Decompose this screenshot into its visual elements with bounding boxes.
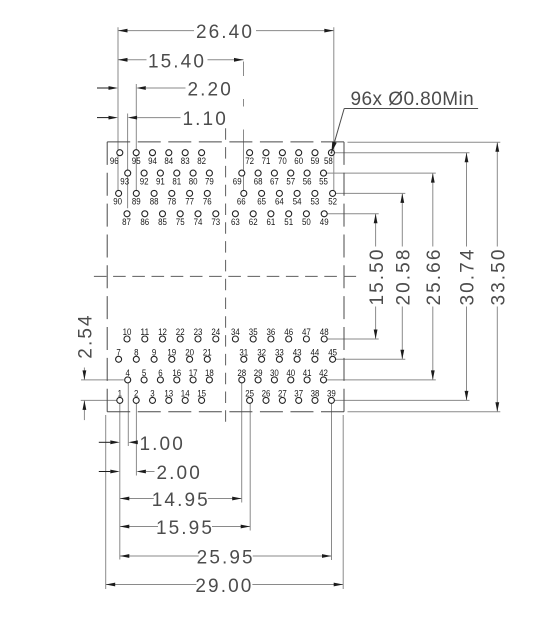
svg-text:13: 13 [164, 389, 173, 399]
dimension 1.00 [99, 441, 111, 443]
svg-text:25.95: 25.95 [197, 548, 255, 569]
pin 36 [268, 336, 274, 342]
svg-text:28: 28 [237, 368, 246, 378]
extension line pin-25 column (dim 15.95) [249, 404, 251, 531]
extension line row8 left (dim 2.54 bottom) [81, 399, 117, 401]
pin 68 [255, 170, 261, 176]
svg-text:31: 31 [239, 347, 248, 357]
pin 71 [263, 150, 269, 156]
connector body outline (dashed) bottom edge [107, 411, 344, 413]
pin 52 [330, 190, 336, 196]
pin 37 [296, 397, 302, 403]
svg-text:52: 52 [328, 197, 337, 207]
svg-text:71: 71 [262, 156, 271, 166]
pin 56 [304, 170, 310, 176]
svg-text:32: 32 [257, 347, 266, 357]
svg-text:17: 17 [189, 368, 198, 378]
svg-text:90: 90 [113, 197, 122, 207]
pin 47 [303, 336, 309, 342]
extension line row5 right (dim 15.50 bottom) [327, 338, 378, 340]
svg-text:62: 62 [249, 217, 258, 227]
pin 9 [151, 356, 157, 362]
pin 81 [174, 170, 180, 176]
pin 38 [312, 397, 318, 403]
pin 43 [294, 356, 300, 362]
svg-text:39: 39 [327, 389, 336, 399]
svg-text:95: 95 [132, 156, 141, 166]
pin 45 [330, 356, 336, 362]
svg-text:67: 67 [270, 176, 279, 186]
pin 7 [116, 356, 122, 362]
pin 80 [190, 170, 196, 176]
pin 79 [206, 170, 212, 176]
dimension 15.40 [118, 59, 147, 61]
svg-text:88: 88 [150, 197, 159, 207]
pin 10 [124, 336, 130, 342]
svg-text:47: 47 [302, 327, 311, 337]
svg-text:30: 30 [270, 368, 279, 378]
pin 39 [328, 397, 334, 403]
extension line body bottom right (dim 33.50 bottom) [348, 411, 501, 413]
pin 18 [206, 377, 212, 383]
pin 19 [169, 356, 175, 362]
extension line pin-4 column (dim 1.00) [127, 383, 129, 446]
svg-text:24: 24 [211, 327, 220, 337]
svg-text:2: 2 [134, 389, 138, 399]
svg-text:11: 11 [140, 327, 149, 337]
pin 15 [199, 397, 205, 403]
pin 59 [312, 150, 318, 156]
pin 21 [204, 356, 210, 362]
pin 62 [250, 211, 256, 217]
svg-text:49: 49 [320, 217, 329, 227]
pin 93 [125, 170, 131, 176]
svg-text:8: 8 [134, 347, 138, 357]
dimension 2.20 [97, 87, 109, 89]
svg-text:7: 7 [116, 347, 120, 357]
pin 94 [150, 150, 156, 156]
extension line body-left (dim 29.00) [105, 415, 107, 589]
svg-text:1: 1 [118, 389, 122, 399]
connector body outline (dashed) top edge [107, 141, 344, 143]
pin 88 [151, 190, 157, 196]
vertical centerline [225, 128, 227, 425]
pin 41 [304, 377, 310, 383]
svg-text:6: 6 [158, 368, 162, 378]
svg-text:5: 5 [142, 368, 146, 378]
svg-text:96: 96 [110, 156, 119, 166]
svg-text:29.00: 29.00 [195, 576, 253, 597]
svg-text:65: 65 [257, 197, 266, 207]
leader note 96x diam 0.80 Min [344, 108, 478, 110]
svg-text:2.00: 2.00 [157, 463, 202, 484]
extension line row7 right (dim 25.66 bottom) [327, 379, 436, 381]
pin 8 [133, 356, 139, 362]
svg-text:2.20: 2.20 [188, 80, 233, 101]
extension line X3 (pin-95/89 column, dim 2.20) [135, 84, 137, 190]
svg-text:14.95: 14.95 [152, 490, 210, 511]
svg-text:64: 64 [275, 197, 284, 207]
pin 58 [328, 150, 334, 156]
pin 11 [142, 336, 148, 342]
svg-text:79: 79 [205, 176, 214, 186]
pin 44 [312, 356, 318, 362]
pin 61 [268, 211, 274, 217]
pin 40 [288, 377, 294, 383]
pin 57 [288, 170, 294, 176]
pin 74 [195, 211, 201, 217]
dimension 26.40 (top) [118, 30, 194, 32]
pin 63 [232, 211, 238, 217]
horizontal centerline [94, 275, 357, 277]
pin 49 [321, 211, 327, 217]
pin 51 [286, 211, 292, 217]
svg-text:46: 46 [284, 327, 293, 337]
svg-text:57: 57 [286, 176, 295, 186]
extension line X4 (dim 15.40 right end, to pin 66) [243, 62, 245, 77]
svg-text:26: 26 [262, 389, 271, 399]
svg-text:25.66: 25.66 [424, 247, 445, 305]
pin 34 [232, 336, 238, 342]
dimension 25.95 [120, 555, 199, 557]
svg-text:68: 68 [254, 176, 263, 186]
pin 48 [321, 336, 327, 342]
svg-text:29: 29 [254, 368, 263, 378]
extension line row8 right (dim 30.74 bottom) [335, 399, 470, 401]
svg-text:96x Ø0.80Min: 96x Ø0.80Min [351, 89, 475, 110]
pin 26 [263, 397, 269, 403]
svg-text:27: 27 [278, 389, 287, 399]
svg-text:30.74: 30.74 [458, 247, 479, 305]
pin 83 [182, 150, 188, 156]
pin 46 [286, 336, 292, 342]
pin 58 leader target dot [331, 152, 333, 154]
pin 3 [150, 397, 156, 403]
pin 14 [182, 397, 188, 403]
pin 67 [271, 170, 277, 176]
dimension 33.50 (vertical) [496, 142, 498, 246]
dimension 30.74 (vertical) [466, 153, 468, 247]
dimension 29.00 [106, 584, 197, 586]
svg-text:75: 75 [176, 217, 185, 227]
svg-text:86: 86 [140, 217, 149, 227]
pin 60 [296, 150, 302, 156]
svg-text:50: 50 [302, 217, 311, 227]
pin 24 [213, 336, 219, 342]
pin 22 [177, 336, 183, 342]
svg-text:43: 43 [293, 347, 302, 357]
pin 77 [187, 190, 193, 196]
svg-text:89: 89 [132, 197, 141, 207]
svg-text:93: 93 [120, 176, 129, 186]
svg-text:40: 40 [286, 368, 295, 378]
svg-text:22: 22 [176, 327, 185, 337]
extension line body-right (dim 29.00) [342, 415, 344, 589]
pin 16 [174, 377, 180, 383]
svg-text:87: 87 [122, 217, 131, 227]
svg-text:82: 82 [197, 156, 206, 166]
svg-text:91: 91 [156, 176, 165, 186]
svg-text:19: 19 [167, 347, 176, 357]
svg-text:1.00: 1.00 [140, 434, 185, 455]
pin 1 [117, 397, 123, 403]
svg-text:9: 9 [152, 347, 156, 357]
svg-text:69: 69 [233, 176, 242, 186]
svg-text:60: 60 [294, 156, 303, 166]
pin 89 [133, 190, 139, 196]
dimension 15.95 [120, 526, 158, 528]
svg-text:53: 53 [311, 197, 320, 207]
extension line pin-39 column (dim 25.95) [331, 404, 333, 560]
pin 32 [259, 356, 265, 362]
extension line X1 (pin-90 column, dims 26.40/15.40/2.20/1.10) [117, 27, 119, 190]
pin 73 [213, 211, 219, 217]
pin 87 [124, 211, 130, 217]
svg-text:4: 4 [126, 368, 130, 378]
svg-text:16: 16 [172, 368, 181, 378]
svg-text:10: 10 [123, 327, 132, 337]
pin 35 [250, 336, 256, 342]
pin 92 [141, 170, 147, 176]
svg-text:33: 33 [275, 347, 284, 357]
svg-text:14: 14 [181, 389, 190, 399]
svg-text:38: 38 [311, 389, 320, 399]
svg-text:44: 44 [311, 347, 320, 357]
dimension 25.66 (vertical) [432, 173, 434, 246]
svg-text:20.58: 20.58 [394, 247, 415, 305]
extension line row1 right (dim 30.74 top) [335, 152, 470, 154]
svg-text:1.10: 1.10 [183, 109, 228, 130]
pin 33 [276, 356, 282, 362]
pin 96 [117, 150, 123, 156]
pin 70 [279, 150, 285, 156]
svg-text:33.50: 33.50 [489, 247, 510, 305]
svg-text:81: 81 [172, 176, 181, 186]
svg-text:85: 85 [158, 217, 167, 227]
extension line row4 right (dim 15.50 top) [327, 213, 378, 215]
svg-text:70: 70 [278, 156, 287, 166]
svg-text:56: 56 [303, 176, 312, 186]
svg-text:58: 58 [324, 156, 333, 166]
pin 78 [169, 190, 175, 196]
svg-text:80: 80 [189, 176, 198, 186]
svg-text:84: 84 [164, 156, 173, 166]
dimension 14.95 [120, 498, 154, 500]
pin 95 [133, 150, 139, 156]
pin 27 [279, 397, 285, 403]
svg-text:26.40: 26.40 [196, 22, 254, 43]
svg-text:35: 35 [249, 327, 258, 337]
pin 23 [195, 336, 201, 342]
svg-text:2.54: 2.54 [76, 313, 97, 358]
connector body outline (dashed) left edge [106, 142, 108, 412]
svg-text:34: 34 [231, 327, 240, 337]
extension line row3 right (dim 20.58 top) [336, 192, 406, 194]
pin 20 [187, 356, 193, 362]
pin 13 [166, 397, 172, 403]
dimension 1.10 [97, 117, 109, 119]
svg-text:76: 76 [203, 197, 212, 207]
pin 64 [276, 190, 282, 196]
extension line X2 (pin-93/87 column, dim 1.10) [127, 114, 129, 209]
svg-text:51: 51 [284, 217, 293, 227]
svg-text:15.50: 15.50 [367, 247, 388, 305]
svg-text:42: 42 [319, 368, 328, 378]
svg-text:77: 77 [185, 197, 194, 207]
svg-text:15.95: 15.95 [156, 518, 214, 539]
pin 91 [157, 170, 163, 176]
svg-text:37: 37 [294, 389, 303, 399]
extension line row2 right (dim 25.66 top) [327, 172, 436, 174]
pin 6 [157, 377, 163, 383]
dimension 15.50 (vertical) [375, 214, 377, 247]
svg-text:83: 83 [181, 156, 190, 166]
pin 4 [125, 377, 131, 383]
pin 66 [241, 190, 247, 196]
svg-text:41: 41 [303, 368, 312, 378]
pin 65 [259, 190, 265, 196]
svg-text:12: 12 [158, 327, 167, 337]
svg-text:54: 54 [293, 197, 302, 207]
svg-text:23: 23 [194, 327, 203, 337]
pin 28 [239, 377, 245, 383]
svg-text:20: 20 [185, 347, 194, 357]
pin 86 [142, 211, 148, 217]
pin 42 [321, 377, 327, 383]
svg-text:55: 55 [319, 176, 328, 186]
extension line body top right (dim 33.50 top) [348, 141, 501, 143]
svg-text:3: 3 [150, 389, 154, 399]
svg-text:73: 73 [211, 217, 220, 227]
svg-text:66: 66 [237, 197, 246, 207]
pin 5 [141, 377, 147, 383]
svg-text:15.40: 15.40 [148, 51, 206, 72]
dimension 2.00 [99, 471, 111, 473]
pin 25 [247, 397, 253, 403]
extension line pin-28 column (dim 14.95) [241, 383, 243, 502]
svg-text:21: 21 [203, 347, 212, 357]
pin 54 [294, 190, 300, 196]
svg-text:78: 78 [167, 197, 176, 207]
pin 69 [239, 170, 245, 176]
svg-text:48: 48 [320, 327, 329, 337]
pin 55 [321, 170, 327, 176]
svg-text:63: 63 [231, 217, 240, 227]
pin 29 [255, 377, 261, 383]
pin 31 [241, 356, 247, 362]
pin 85 [160, 211, 166, 217]
pin 84 [166, 150, 172, 156]
pin 90 [116, 190, 122, 196]
svg-text:45: 45 [328, 347, 337, 357]
svg-text:72: 72 [245, 156, 254, 166]
svg-text:74: 74 [194, 217, 203, 227]
extension line pin-2 column (dim 2.00) [135, 404, 137, 476]
pin 82 [199, 150, 205, 156]
svg-text:94: 94 [148, 156, 157, 166]
svg-text:92: 92 [140, 176, 149, 186]
svg-text:18: 18 [205, 368, 214, 378]
pin 2 [133, 397, 139, 403]
connector body outline (dashed) right edge [343, 142, 345, 412]
pin 50 [303, 211, 309, 217]
extension line X5 (pin-58 side, dim 26.40 right end) [333, 27, 335, 190]
pin 53 [312, 190, 318, 196]
pin 76 [204, 190, 210, 196]
svg-text:25: 25 [245, 389, 254, 399]
svg-text:61: 61 [267, 217, 276, 227]
pin 30 [271, 377, 277, 383]
extension line row6 right (dim 20.58 bottom) [336, 358, 406, 360]
extension line row7 left (dim 2.54 top) [81, 379, 124, 381]
svg-text:59: 59 [311, 156, 320, 166]
svg-text:36: 36 [267, 327, 276, 337]
pin 17 [190, 377, 196, 383]
pin 75 [177, 211, 183, 217]
extension line pin-1 column (dims 1.00/2.00/14.95/15.95/25.95) [119, 404, 121, 560]
pin 12 [160, 336, 166, 342]
dimension 20.58 (vertical) [401, 193, 403, 246]
pin 72 [247, 150, 253, 156]
svg-text:15: 15 [197, 389, 206, 399]
